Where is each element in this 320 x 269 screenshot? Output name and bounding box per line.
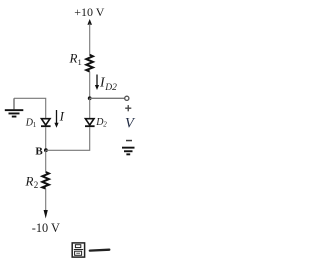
label R2: [25, 174, 39, 191]
caption 圖一 (Figure 1): [72, 243, 109, 257]
label minus: [126, 140, 132, 142]
svg-text:1: 1: [33, 121, 37, 129]
wire: node B to R2: [45, 150, 47, 172]
svg-text:2: 2: [34, 180, 39, 190]
label R1: [69, 51, 82, 68]
wire: D1 to node B: [45, 127, 47, 150]
+10V supply arrow: [87, 19, 92, 55]
label D1: [25, 117, 37, 129]
svg-text:B: B: [35, 146, 43, 158]
ground (right): [122, 147, 135, 156]
wire: D2 to node B (corner): [46, 127, 90, 150]
resistor R1: [86, 55, 93, 72]
wire: R1 to junction node: [89, 72, 91, 99]
current arrow I: [54, 110, 58, 128]
svg-text:-10 V: -10 V: [32, 221, 60, 235]
resistor R2: [42, 172, 49, 189]
svg-text:+10 V: +10 V: [74, 5, 105, 19]
node B dot: [44, 148, 48, 152]
wire: junction to output terminal: [90, 97, 125, 99]
junction node dot: [88, 96, 92, 100]
wire: junction to D2: [89, 98, 91, 119]
-10V supply arrow: [44, 210, 48, 219]
svg-text:R: R: [69, 51, 78, 66]
svg-text:2: 2: [103, 121, 107, 129]
svg-text:I: I: [59, 109, 65, 124]
svg-text:1: 1: [78, 57, 82, 67]
ground (left): [5, 98, 24, 117]
label D2: [95, 117, 107, 129]
label plus: [125, 105, 131, 111]
wire: left ground to D1 branch (corner): [14, 98, 46, 119]
svg-text:D2: D2: [104, 83, 117, 93]
current arrow ID2: [95, 75, 99, 91]
output terminal: [125, 96, 129, 100]
svg-text:R: R: [25, 174, 34, 189]
diode D2: [85, 119, 95, 127]
diode D1: [41, 119, 51, 127]
wire: R2 to -10V arrow: [45, 189, 47, 213]
label ID2: [99, 76, 117, 94]
